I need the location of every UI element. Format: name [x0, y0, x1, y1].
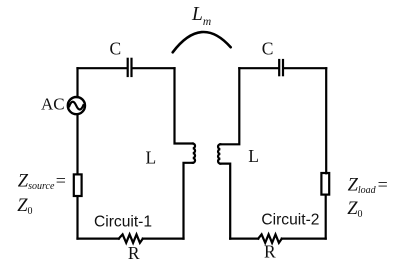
svg-text:Zload=: Zload= — [348, 175, 388, 197]
wire c1 left upper segment — [76, 68, 78, 97]
wire c2 top-left segment — [239, 67, 278, 69]
svg-text:C: C — [110, 38, 122, 58]
svg-text:AC: AC — [41, 95, 65, 114]
svg-text:Z0: Z0 — [17, 196, 32, 217]
mutual inductance arc Lm — [173, 32, 231, 52]
wire c2 top-right segment — [284, 67, 326, 69]
wire c2 left upper jog — [220, 68, 239, 144]
impedance box Z_source — [74, 174, 82, 196]
AC source U1 circle — [68, 97, 85, 114]
wire c1 right upper jog — [175, 68, 193, 143]
svg-text:L: L — [248, 146, 259, 166]
wire c1 top-left segment — [78, 67, 127, 69]
capacitor C1 — [128, 59, 132, 76]
svg-text:Z0: Z0 — [347, 199, 362, 220]
svg-text:R: R — [264, 242, 276, 262]
wire c1 bottom-left segment — [78, 238, 119, 240]
AC source U1 sine wave — [69, 102, 83, 110]
inductor L1 — [193, 144, 195, 163]
wire c2 left lower jog — [220, 164, 230, 239]
svg-text:R: R — [128, 243, 140, 263]
impedance box Z_load — [321, 173, 329, 195]
wire c2 right lower segment — [325, 195, 327, 239]
svg-text:Zsource=: Zsource= — [18, 171, 66, 193]
svg-text:Lm: Lm — [191, 4, 211, 28]
resistor R1 — [119, 234, 143, 242]
wire c1 top-right segment — [132, 67, 174, 69]
inductor L2 — [218, 144, 220, 163]
capacitor C2 — [279, 60, 283, 75]
wire c1 left lower segment — [76, 196, 78, 238]
wire c1 right lower jog — [184, 163, 193, 239]
svg-text:L: L — [145, 147, 156, 167]
wire c1 bottom-right segment — [143, 238, 184, 240]
svg-text:C: C — [262, 38, 274, 58]
resistor R2 — [258, 234, 282, 242]
wire c2 bottom-left segment — [230, 238, 258, 240]
svg-text:Circuit-1: Circuit-1 — [94, 213, 152, 230]
svg-text:Circuit-2: Circuit-2 — [261, 212, 319, 229]
wire c2 bottom-right segment — [282, 238, 326, 240]
wire c2 right upper segment — [325, 68, 327, 173]
wire c1 left middle segment — [76, 114, 78, 174]
